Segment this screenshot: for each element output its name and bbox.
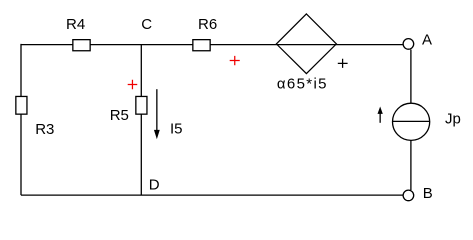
- red polarity + right of R6: [230, 56, 240, 65]
- dependent source diamond (alpha65*i5): [276, 14, 336, 74]
- wire left branch: top-left corner to bottom-left corner (through R3): [20, 44, 22, 195]
- arrow of current source Jp: [378, 107, 383, 123]
- current arrow I5: [154, 89, 160, 139]
- wire middle branch: node C down through R5 to node D: [140, 45, 142, 196]
- wire top bus: top-left corner through R4, C, R6, diamond to node A: [21, 44, 403, 46]
- resistor R4: [73, 40, 90, 51]
- resistor R6: [193, 40, 210, 51]
- svg-text:R5: R5: [110, 107, 129, 124]
- svg-text:A: A: [422, 31, 432, 48]
- svg-text:I5: I5: [170, 120, 183, 137]
- wire: current source Jp down to node B: [410, 140, 412, 191]
- black polarity + of dependent source: [338, 59, 348, 68]
- wire bottom bus: bottom-left corner through D to node B: [21, 194, 403, 196]
- resistor R3: [16, 96, 27, 114]
- resistor R5: [136, 96, 147, 114]
- wire: node A down to current source Jp: [410, 50, 412, 105]
- svg-text:R4: R4: [66, 16, 85, 33]
- terminal node A: [403, 39, 414, 50]
- svg-text:α65*i5: α65*i5: [277, 76, 328, 93]
- svg-text:B: B: [423, 185, 433, 202]
- svg-text:R3: R3: [35, 121, 54, 138]
- current source Jp: circle with horizontal chord: [393, 103, 430, 140]
- svg-text:Jp: Jp: [445, 111, 461, 128]
- svg-text:C: C: [141, 16, 152, 33]
- svg-text:D: D: [149, 177, 160, 194]
- red polarity + above R5: [128, 80, 138, 90]
- terminal node B: [403, 190, 414, 201]
- svg-text:R6: R6: [198, 16, 217, 33]
